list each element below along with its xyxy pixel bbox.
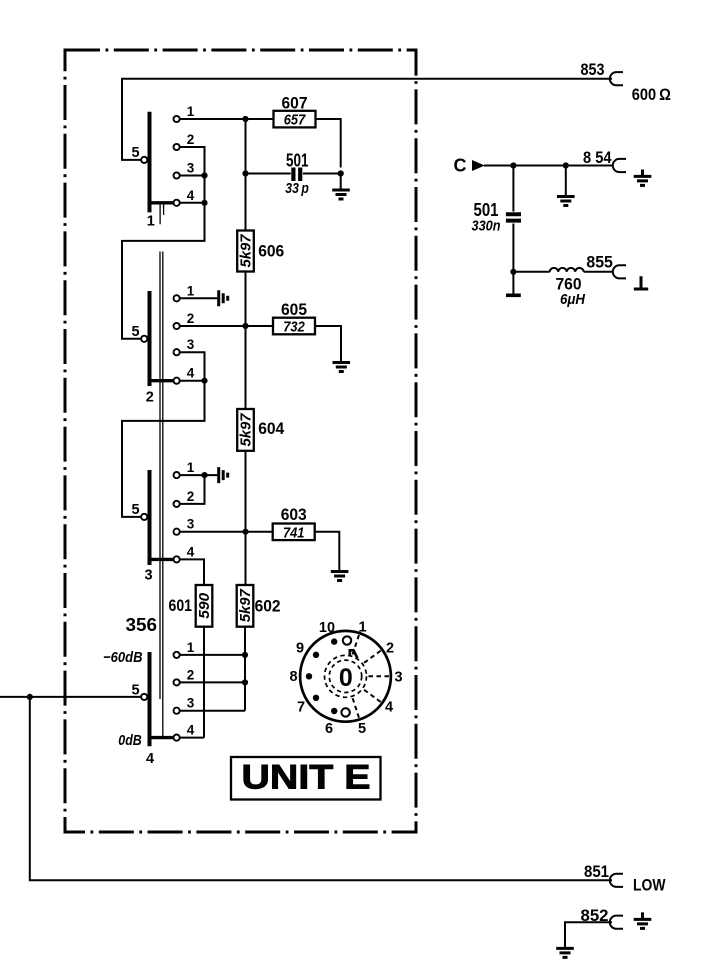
unit boundary dash-dot frame <box>65 50 416 832</box>
switch S1 foot to contact 4 <box>150 201 174 204</box>
wire: switch1 wiper to terminal 853 <box>122 79 612 160</box>
ground <box>332 190 350 199</box>
earth symbol right of 854 <box>634 170 652 186</box>
wire: S4 contact2 to bus B <box>180 681 245 683</box>
svg-text:UNIT E: UNIT E <box>242 759 371 797</box>
junction <box>242 529 248 535</box>
switch S1 wiper contact pin 5 <box>141 157 147 163</box>
svg-text:4: 4 <box>146 751 154 767</box>
dashed pointer position 3 <box>369 675 390 677</box>
side ground at S3 contact1 <box>219 467 228 483</box>
junction <box>338 170 344 176</box>
wire: S2 contacts 3,4 cascade to S3 wiper <box>122 352 205 517</box>
wire: S1 contact1 to R607 <box>180 118 274 120</box>
ground <box>331 572 349 581</box>
junction <box>27 694 33 700</box>
ground <box>557 197 575 206</box>
wire: R605 right to ground <box>315 326 341 363</box>
svg-text:33 p: 33 p <box>285 180 309 197</box>
svg-text:602: 602 <box>255 598 281 616</box>
svg-text:5: 5 <box>358 721 366 737</box>
wire: terminal 852 to ground <box>565 922 612 948</box>
svg-text:3: 3 <box>187 337 195 352</box>
svg-text:9: 9 <box>296 641 304 657</box>
wire: inductor to terminal 855 <box>584 271 613 273</box>
wire: cap row right <box>303 173 341 175</box>
junction <box>201 200 207 206</box>
wire: R604 to R602 bus <box>245 451 247 585</box>
dashed pointer position 5 <box>353 698 360 718</box>
wire: S3 contact3 to R603 <box>180 531 273 533</box>
svg-text:2: 2 <box>187 311 195 326</box>
svg-text:607: 607 <box>282 94 308 112</box>
svg-text:5k97: 5k97 <box>238 234 255 268</box>
resistor R605 <box>273 318 315 335</box>
wire: S1 contact4 stub <box>180 202 205 204</box>
svg-text:606: 606 <box>258 243 284 261</box>
resistor R607 <box>274 111 316 128</box>
svg-text:3: 3 <box>187 517 195 532</box>
contact S4-3 <box>174 708 180 714</box>
svg-text:2: 2 <box>187 667 195 682</box>
junction <box>201 378 207 384</box>
dashed pointer position 4 <box>364 690 381 702</box>
terminal 854 <box>613 159 626 172</box>
svg-text:855: 855 <box>586 253 613 271</box>
position dot 9 <box>313 652 319 658</box>
wire <box>512 224 514 294</box>
svg-text:603: 603 <box>281 506 307 524</box>
junction <box>242 652 248 658</box>
junction <box>242 323 248 329</box>
svg-text:356: 356 <box>126 615 158 635</box>
contact S2-1 <box>174 295 180 301</box>
svg-text:1: 1 <box>187 640 195 655</box>
switch S4 rotor bar <box>148 652 152 746</box>
rotary hub dashed circles <box>325 655 367 697</box>
chassis stub below C501 <box>506 293 521 297</box>
terminal 853 <box>610 72 623 85</box>
inductor L760 6uH <box>550 268 584 272</box>
svg-text:2: 2 <box>146 390 154 406</box>
contact S4-2 <box>174 679 180 685</box>
wire: S2 contact4 stub <box>180 380 205 382</box>
terminal 851 <box>610 874 623 887</box>
input arrow <box>472 160 485 171</box>
svg-text:6μH: 6μH <box>560 291 586 308</box>
switch S2 foot to contact 4 <box>150 379 174 382</box>
svg-text:604: 604 <box>258 420 285 438</box>
contact S1-4 <box>174 200 180 206</box>
svg-text:657: 657 <box>284 112 306 129</box>
wire: wiper of switch4 from outside left, down to terminal 851 <box>0 697 612 880</box>
wire: junction to inductor <box>513 271 549 273</box>
switch S2 rotor bar <box>148 291 152 386</box>
switch S4 foot to contact 4 <box>150 736 174 739</box>
svg-text:1: 1 <box>358 620 366 636</box>
contact S1-3 <box>174 172 180 178</box>
UNIT E title box <box>231 757 381 800</box>
wire: stem to ground <box>340 174 342 191</box>
junction <box>563 162 569 168</box>
contact S2-3 <box>174 349 180 355</box>
svg-text:605: 605 <box>281 301 307 319</box>
svg-text:1: 1 <box>187 104 195 119</box>
svg-text:4: 4 <box>385 700 393 716</box>
contact S1-1 <box>174 116 180 122</box>
terminal 852 <box>610 916 623 929</box>
terminal 855 <box>613 265 626 278</box>
switch S2 wiper contact pin 5 <box>141 336 147 342</box>
svg-text:0dB: 0dB <box>118 732 142 749</box>
svg-text:8 54: 8 54 <box>583 149 612 167</box>
junction <box>242 170 248 176</box>
capacitor C501 330n <box>506 214 521 220</box>
wire: bus junction down from R607 row to R606 <box>245 119 247 231</box>
switch S3 rotor bar <box>148 470 152 565</box>
position dot 10 <box>331 638 337 644</box>
side ground at S2 contact1 <box>219 290 228 306</box>
contact S2-4 <box>174 378 180 384</box>
svg-text:5: 5 <box>132 145 140 161</box>
wire: C to terminal 854 <box>484 165 612 167</box>
svg-text:−60dB: −60dB <box>103 649 143 666</box>
position dot 7 <box>313 695 319 701</box>
index hole bottom <box>341 708 349 716</box>
wire: S4 contact3 to bus B <box>180 710 245 712</box>
junction <box>510 269 516 275</box>
resistor R602 <box>237 585 254 627</box>
wire: R606 to R604 bus <box>245 272 247 410</box>
contact S2-2 <box>174 323 180 329</box>
junction <box>510 162 516 168</box>
svg-text:330n: 330n <box>472 218 501 235</box>
svg-text:8: 8 <box>289 669 297 685</box>
svg-text:10: 10 <box>319 620 335 636</box>
resistor R601 <box>196 585 213 627</box>
svg-text:1: 1 <box>187 283 195 298</box>
index hole top <box>343 636 351 644</box>
svg-text:851: 851 <box>584 863 609 881</box>
svg-text:6: 6 <box>325 721 333 737</box>
svg-text:3: 3 <box>145 568 153 584</box>
wire: R603 right to ground <box>315 532 340 572</box>
wire: S3 contact4 down to R601 <box>180 559 204 585</box>
shaft coupling lines <box>160 252 163 737</box>
wire: S2 contact2 to R605 <box>180 325 273 327</box>
svg-text:853: 853 <box>581 61 605 79</box>
svg-text:3: 3 <box>394 670 402 686</box>
wire: S4 contact4 up to R601 <box>180 627 204 738</box>
contact S3-2 <box>174 501 180 507</box>
ground <box>556 948 574 957</box>
wire: cap row left <box>246 173 291 175</box>
wire: S2 contact1 stub <box>180 297 217 299</box>
svg-text:732: 732 <box>283 319 305 336</box>
earth symbol right of 852 <box>634 912 652 928</box>
junction <box>242 679 248 685</box>
switch S3 foot to contact 4 <box>150 558 174 561</box>
svg-text:852: 852 <box>581 907 609 925</box>
wire: bus B from R602 down to contact3 <box>244 627 246 711</box>
switch S4 wiper contact pin 5 <box>141 694 147 700</box>
resistor R603 <box>273 524 315 541</box>
svg-text:LOW: LOW <box>633 877 666 895</box>
junction <box>201 172 207 178</box>
contact S4-1 <box>174 652 180 658</box>
position dot 8 <box>306 673 312 679</box>
wire: stem to ground <box>565 166 567 197</box>
svg-text:501: 501 <box>286 150 309 170</box>
contact S3-4 <box>174 556 180 562</box>
position dot 6 <box>331 708 337 714</box>
junction <box>201 472 207 478</box>
svg-text:0: 0 <box>339 664 353 692</box>
svg-text:1: 1 <box>187 460 195 475</box>
svg-text:1: 1 <box>147 214 155 230</box>
dashed pointer position 2 <box>364 650 381 662</box>
wire: S1 contact3 stub <box>180 175 205 177</box>
svg-text:590: 590 <box>196 592 213 619</box>
resistor R606 <box>237 231 254 272</box>
svg-text:5k97: 5k97 <box>237 589 254 623</box>
contact S3-1 <box>174 472 180 478</box>
svg-text:5: 5 <box>132 682 140 698</box>
contact S1-2 <box>174 144 180 150</box>
contact S4-4 <box>174 735 180 741</box>
svg-text:7: 7 <box>297 700 305 716</box>
wire <box>512 166 514 212</box>
junction <box>242 116 248 122</box>
capacitor C501 33p <box>293 168 300 182</box>
svg-text:3: 3 <box>187 161 195 176</box>
svg-text:4: 4 <box>187 188 195 203</box>
svg-text:4: 4 <box>187 544 195 559</box>
svg-text:601: 601 <box>169 597 193 615</box>
rotary switch dial outer circle <box>300 631 391 722</box>
wire: S1 contacts 2,3,4 cascade to S2 wiper <box>122 147 205 339</box>
svg-text:5: 5 <box>132 324 140 340</box>
svg-text:5: 5 <box>132 502 140 518</box>
svg-text:600 Ω: 600 Ω <box>632 86 671 104</box>
wire: S3 contact1 to side ground, link to contact2 <box>180 475 217 504</box>
wire: R607 right, down to cap row <box>316 119 341 168</box>
svg-text:5k97: 5k97 <box>238 413 255 447</box>
resistor R604 <box>237 409 254 451</box>
svg-text:2: 2 <box>187 489 195 504</box>
svg-text:C: C <box>454 155 467 175</box>
svg-text:4: 4 <box>187 723 195 738</box>
contact S3-3 <box>174 529 180 535</box>
ground <box>333 363 351 372</box>
switch S3 wiper contact pin 5 <box>141 514 147 520</box>
shaft stub lines below S1 <box>160 204 164 224</box>
rotary index notch <box>350 650 358 658</box>
svg-text:4: 4 <box>187 366 195 381</box>
svg-text:2: 2 <box>187 132 195 147</box>
svg-text:3: 3 <box>187 696 195 711</box>
dashed pointer position 1 <box>353 635 360 655</box>
svg-text:741: 741 <box>283 524 305 541</box>
svg-text:2: 2 <box>386 641 394 657</box>
switch S1 rotor bar <box>148 112 152 213</box>
wire: S4 contact1 to bus B <box>180 654 245 656</box>
chassis symbol right of 855 <box>634 276 648 289</box>
